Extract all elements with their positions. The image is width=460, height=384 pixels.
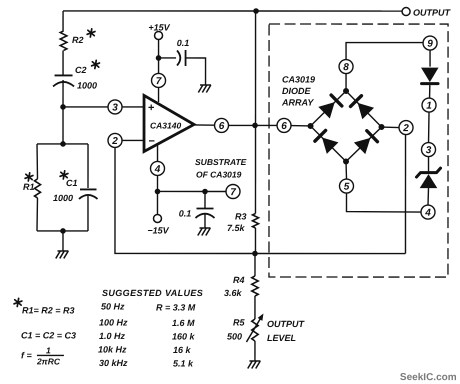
svg-text:DIODE: DIODE xyxy=(282,86,312,96)
svg-text:+: + xyxy=(148,102,154,114)
svg-text:R1: R1 xyxy=(23,182,35,192)
wire top vertex to circle 8 xyxy=(345,74,347,92)
wire circle3 to zener xyxy=(428,157,430,173)
svg-text:8: 8 xyxy=(343,62,349,73)
svg-text:4: 4 xyxy=(424,208,431,219)
label R1 xyxy=(25,173,33,181)
capacitor C1 xyxy=(79,189,98,199)
wire pin4 stub xyxy=(157,144,159,162)
ground below R1C1 xyxy=(56,251,69,259)
wire junction down to R1C1 box xyxy=(62,107,64,144)
svg-text:7: 7 xyxy=(230,187,236,198)
svg-text:f =: f = xyxy=(21,350,33,360)
svg-text:R = 3.3 M: R = 3.3 M xyxy=(156,302,196,312)
wire zener to circle 4 xyxy=(427,188,430,206)
wire junction to circle 3 xyxy=(63,106,108,108)
svg-text:2: 2 xyxy=(402,123,409,134)
diode D1 (9 to 1) xyxy=(421,68,439,84)
dashed enclosure CA3019 xyxy=(269,24,448,277)
capacitor 0.1 bypass +15V xyxy=(159,50,206,85)
potentiometer R5 xyxy=(246,314,263,343)
R1 C1 parallel box wires xyxy=(37,143,88,145)
svg-text:CA3019: CA3019 xyxy=(282,75,315,85)
wire feedback from pin2 down and right to divider xyxy=(115,147,406,253)
svg-text:+15V: +15V xyxy=(148,22,170,32)
svg-text:3: 3 xyxy=(112,103,118,114)
svg-text:4: 4 xyxy=(154,164,161,175)
svg-text:R2: R2 xyxy=(72,35,84,45)
CA3019 pin 8 circle xyxy=(339,60,353,74)
svg-text:1000: 1000 xyxy=(77,80,97,90)
wire R3 to junction xyxy=(254,228,256,254)
svg-text:SUBSTRATE: SUBSTRATE xyxy=(195,157,247,167)
wire circle9 to diode xyxy=(429,50,431,67)
wire pin4 to -15V xyxy=(156,175,158,214)
svg-text:0.1: 0.1 xyxy=(179,208,192,218)
svg-text:1: 1 xyxy=(46,345,51,355)
diode bridge top-right (2 to 8) xyxy=(351,96,375,120)
wire bottom vertex to circle 5 xyxy=(345,162,348,180)
svg-text:OUTPUT: OUTPUT xyxy=(267,319,306,329)
pin 4 circle xyxy=(151,161,165,175)
wire circle3 to op-amp xyxy=(122,106,144,108)
wire junction to R4 xyxy=(254,254,256,277)
wire divider up to CA3019 pin 2 xyxy=(404,135,406,254)
wire pin7 to +15V xyxy=(158,39,160,73)
resistor R3 xyxy=(252,214,258,229)
svg-text:100 Hz: 100 Hz xyxy=(99,317,128,327)
wire left column x=63 top xyxy=(62,11,64,31)
CA3019 pin 9 circle xyxy=(423,36,437,50)
svg-text:3.6k: 3.6k xyxy=(224,288,243,298)
OUTPUT terminal xyxy=(402,8,410,16)
svg-text:2πRC: 2πRC xyxy=(36,356,61,366)
svg-text:1.6 M: 1.6 M xyxy=(172,318,195,328)
resistor R1 xyxy=(34,179,40,198)
svg-text:5: 5 xyxy=(344,182,350,193)
diode bridge bottom-right (5 to 2) xyxy=(354,131,378,154)
node pin 2 circle xyxy=(108,133,122,147)
svg-text:−15V: −15V xyxy=(147,225,169,235)
svg-text:0.1: 0.1 xyxy=(177,38,190,48)
label C1 1000 xyxy=(60,171,68,179)
svg-text:30 kHz: 30 kHz xyxy=(99,358,128,368)
diode bridge top-left (6 to 8) xyxy=(318,95,342,119)
svg-text:1: 1 xyxy=(426,101,432,112)
CA3019 pin 5 circle xyxy=(339,179,353,193)
svg-text:C1 = C2 = C3: C1 = C2 = C3 xyxy=(21,330,76,340)
wire substrate run xyxy=(158,190,226,192)
wire circle2 to op-amp xyxy=(122,139,144,141)
resistor R4 xyxy=(252,276,258,296)
svg-text:1000: 1000 xyxy=(53,193,73,203)
wire circle5 to circle4 xyxy=(346,193,421,212)
wire circle6 to CA3019 circle 6 xyxy=(229,124,278,126)
node junction C2/R1C1/pin3 xyxy=(60,104,66,110)
wire R5 to ground xyxy=(254,341,256,361)
svg-text:SeekIC.com: SeekIC.com xyxy=(400,372,457,383)
pin 7 circle xyxy=(152,73,166,87)
diode bridge bottom-left (5 to 6) xyxy=(315,130,339,154)
resistor R2 xyxy=(60,31,67,51)
svg-text:16 k: 16 k xyxy=(173,345,192,355)
svg-text:50 Hz: 50 Hz xyxy=(101,301,125,311)
wire diode to circle 1 xyxy=(429,85,431,99)
svg-text:1.0 Hz: 1.0 Hz xyxy=(99,331,126,341)
svg-text:ARRAY: ARRAY xyxy=(281,98,314,108)
ground for +15V bypass xyxy=(198,85,211,93)
wire R4 to R5 xyxy=(254,296,256,319)
svg-text:160 k: 160 k xyxy=(172,331,196,341)
svg-text:10k Hz: 10k Hz xyxy=(98,344,127,354)
svg-text:6: 6 xyxy=(281,121,287,132)
svg-text:C1: C1 xyxy=(66,178,78,188)
capacitor C2 xyxy=(53,75,74,86)
wire box to ground xyxy=(62,231,64,251)
svg-text:500: 500 xyxy=(227,331,242,341)
ground for -15V bypass xyxy=(198,228,211,236)
svg-text:3: 3 xyxy=(426,145,432,156)
svg-text:R5: R5 xyxy=(233,318,246,328)
wire circle8 to circle9 xyxy=(346,43,423,60)
svg-text:LEVEL: LEVEL xyxy=(267,333,296,343)
svg-text:2: 2 xyxy=(111,136,118,147)
svg-text:5.1 k: 5.1 k xyxy=(173,358,194,368)
+15V terminal xyxy=(155,31,163,39)
svg-text:OF CA3019: OF CA3019 xyxy=(196,169,242,179)
wire pin7 stub xyxy=(158,87,160,102)
CA3019 pin 4 circle xyxy=(421,205,435,219)
ground below R5 xyxy=(248,361,261,369)
capacitor 0.1 bypass -15V xyxy=(195,191,214,228)
bridge vertex nodes xyxy=(308,123,314,129)
svg-text:C2: C2 xyxy=(75,65,87,75)
wire top rail from R2 top to OUTPUT terminal xyxy=(63,10,402,12)
wire op-amp out to circle 6 xyxy=(194,124,215,126)
wire R2 to C2 xyxy=(62,50,64,74)
svg-text:R1= R2 = R3: R1= R2 = R3 xyxy=(22,305,75,315)
svg-text:9: 9 xyxy=(427,39,433,50)
note asterisk xyxy=(14,298,22,306)
node pin 3 circle xyxy=(108,100,122,114)
svg-text:−: − xyxy=(149,135,155,147)
CA3019 pin 2 circle xyxy=(399,121,413,135)
substrate pin 7 circle xyxy=(226,184,240,198)
vertical bus x=255: top rail to R3 xyxy=(254,11,256,213)
svg-text:SUGGESTED VALUES: SUGGESTED VALUES xyxy=(102,288,203,298)
wire C2 to junction xyxy=(62,80,64,107)
op-amp U1 CA3140 triangle xyxy=(144,95,194,151)
wire circle1 to circle3 xyxy=(428,112,431,144)
svg-text:R4: R4 xyxy=(233,275,245,285)
wire bridge edges xyxy=(311,91,382,162)
svg-text:R3: R3 xyxy=(235,212,247,222)
svg-text:7: 7 xyxy=(156,76,162,87)
CA3019 pin 1 circle xyxy=(422,98,436,112)
CA3019 pin 6 circle xyxy=(277,118,291,132)
svg-text:7.5k: 7.5k xyxy=(227,223,246,233)
svg-text:CA3140: CA3140 xyxy=(150,120,181,130)
svg-text:OUTPUT: OUTPUT xyxy=(413,8,452,18)
pin 6 circle xyxy=(215,118,229,132)
CA3019 pin 3 circle xyxy=(422,143,436,157)
zener diode (3 to 4) xyxy=(417,168,441,188)
svg-text:6: 6 xyxy=(219,121,225,132)
-15V terminal xyxy=(153,214,161,222)
